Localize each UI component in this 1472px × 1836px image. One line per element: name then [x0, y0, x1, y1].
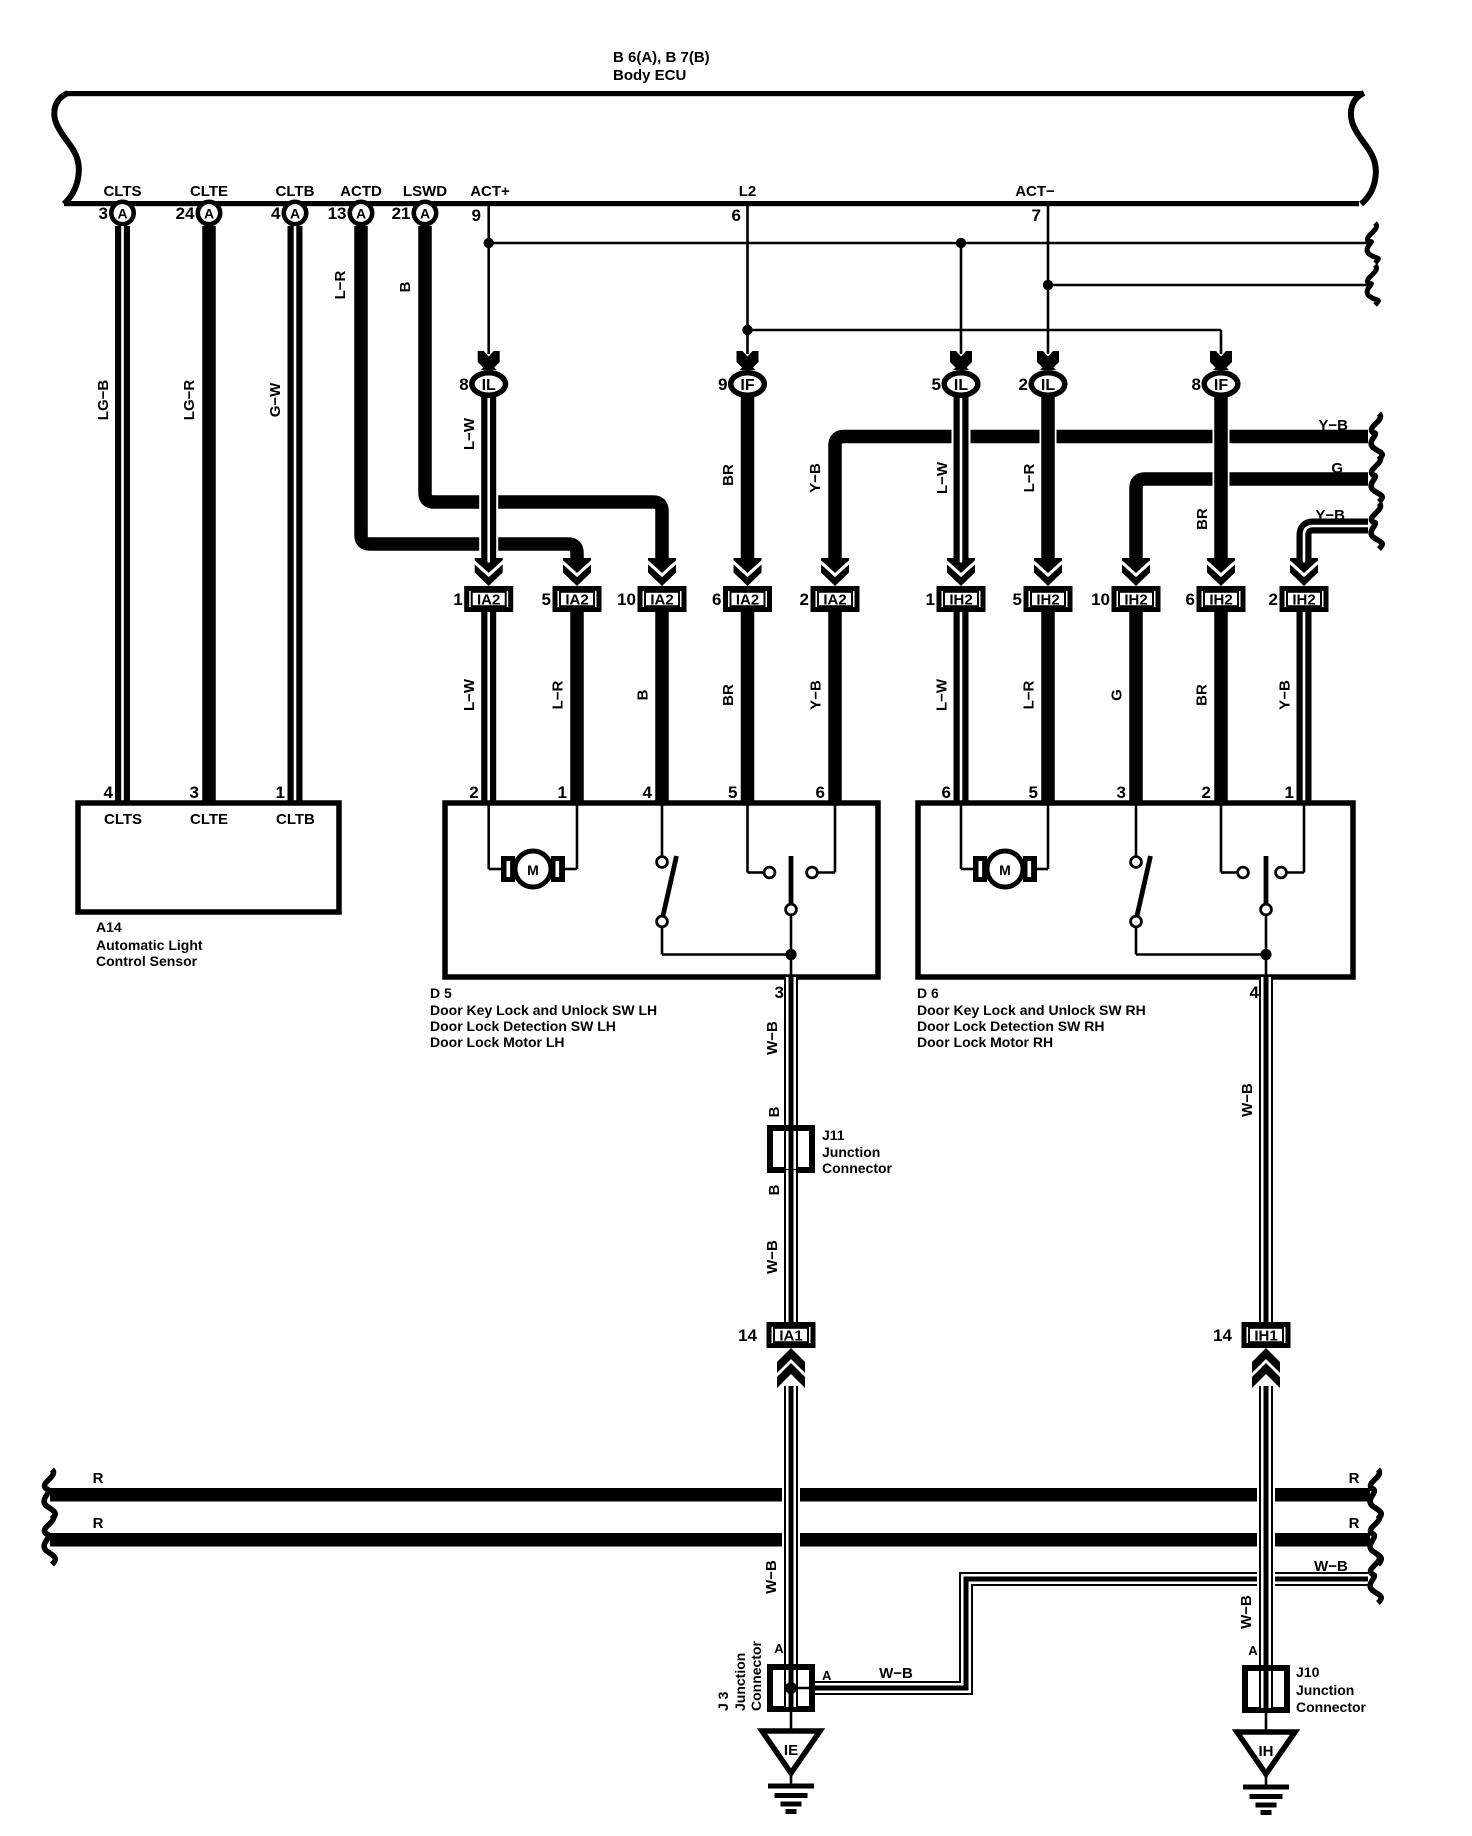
svg-text:Connector: Connector [1296, 1699, 1367, 1715]
svg-text:9: 9 [718, 375, 727, 394]
svg-text:3: 3 [775, 983, 784, 1002]
svg-text:Door Key Lock and Unlock SW LH: Door Key Lock and Unlock SW LH [430, 1002, 657, 1018]
connector IA2 pin 6 with arrow [734, 558, 762, 586]
ECU pin 3 connector A [111, 202, 133, 224]
svg-text:L−R: L−R [1021, 680, 1038, 709]
svg-text:M: M [999, 862, 1011, 878]
svg-text:Junction: Junction [1296, 1682, 1354, 1698]
connector IH2 pin 6 with arrow [1207, 558, 1235, 586]
svg-text:A: A [774, 1641, 784, 1656]
wire branch down to IF pin 8 [1220, 330, 1223, 354]
svg-text:R: R [1349, 1515, 1360, 1532]
svg-text:W−B: W−B [763, 1560, 780, 1594]
svg-text:B: B [766, 1184, 783, 1195]
svg-text:10: 10 [1091, 590, 1110, 609]
svg-text:IA2: IA2 [477, 592, 500, 609]
wire L-R from IL2 to IH2 pin5 [1040, 395, 1057, 572]
wire LG-B CLTS [113, 226, 132, 803]
ECU pin 21 connector A [414, 202, 436, 224]
wire ACT- branch horizontal to right edge [1048, 284, 1368, 287]
svg-text:BR: BR [720, 684, 737, 706]
wire branch down to IL pin 5 [960, 243, 963, 354]
connector IH1 pin 14 [1244, 1325, 1288, 1346]
svg-text:Junction: Junction [732, 1653, 748, 1711]
svg-text:CLTB: CLTB [276, 811, 315, 828]
svg-text:Door Key Lock and Unlock SW RH: Door Key Lock and Unlock SW RH [917, 1002, 1146, 1018]
svg-text:1: 1 [1285, 783, 1294, 802]
svg-text:W−B: W−B [1314, 1558, 1348, 1575]
wire W-B from J3 to right edge [814, 1579, 1368, 1688]
wire Y-B to door lock pin 1 [1297, 612, 1312, 803]
torn edge line y243 [1367, 223, 1378, 263]
svg-text:Door Lock Motor RH: Door Lock Motor RH [917, 1034, 1053, 1050]
svg-text:M: M [527, 862, 539, 878]
torn edge G [1371, 456, 1382, 502]
J10 Junction Connector [1245, 1668, 1287, 1710]
connector IH2 pin 1 with arrow [947, 558, 975, 586]
svg-text:10: 10 [617, 590, 636, 609]
connector IA2 pin 2 with arrow [821, 558, 849, 586]
wire L-W to door lock pin 6 [954, 612, 969, 803]
svg-text:21: 21 [392, 204, 411, 223]
svg-text:L−R: L−R [550, 680, 567, 709]
svg-text:6: 6 [712, 590, 721, 609]
wire Y-B (striped) from right edge to IH2 pin2 [1304, 526, 1368, 566]
svg-text:CLTS: CLTS [104, 811, 142, 828]
svg-text:Y−B: Y−B [1318, 417, 1348, 434]
svg-text:1: 1 [453, 590, 462, 609]
svg-text:J10: J10 [1296, 1664, 1320, 1680]
svg-text:L−W: L−W [461, 678, 478, 711]
svg-text:IE: IE [784, 1742, 798, 1759]
wire L2 branch horizontal to IF pin 8 [748, 329, 1222, 332]
wire L-R to door lock pin 1 [570, 612, 584, 803]
svg-text:A: A [822, 1668, 832, 1683]
svg-text:BR: BR [720, 464, 737, 486]
svg-text:IH: IH [1259, 1743, 1274, 1760]
svg-text:Junction: Junction [822, 1144, 880, 1160]
junction node to IL5 [956, 238, 966, 248]
svg-text:BR: BR [1194, 508, 1211, 530]
svg-text:5: 5 [1013, 590, 1022, 609]
ECU pin 24 connector A [198, 202, 220, 224]
wire L-W to door lock pin 2 [481, 612, 496, 803]
wire R bus upper [50, 1488, 1370, 1502]
svg-text:14: 14 [738, 1326, 757, 1345]
torn edge Y-B [1371, 414, 1382, 460]
svg-text:R: R [93, 1470, 104, 1487]
wire BR to door lock pin 2 [1214, 612, 1228, 803]
svg-text:IH2: IH2 [1209, 592, 1232, 609]
svg-text:IL: IL [954, 377, 968, 394]
svg-text:IH2: IH2 [1124, 592, 1147, 609]
svg-text:1: 1 [276, 783, 285, 802]
svg-text:2: 2 [1019, 375, 1028, 394]
svg-text:3: 3 [99, 204, 108, 223]
svg-text:Control Sensor: Control Sensor [96, 953, 198, 969]
svg-text:A: A [1248, 1643, 1258, 1658]
svg-text:Y−B: Y−B [1315, 507, 1345, 524]
svg-text:4: 4 [104, 783, 114, 802]
connector IA2 pin 10 with arrow [648, 558, 676, 586]
wire BR from IF9 to IA2 pin6 [739, 395, 756, 572]
wire L-W from IL5 to IH2 pin1 [952, 395, 971, 572]
junction node L2 [742, 325, 752, 335]
svg-text:A: A [204, 206, 214, 222]
connector oval IL pin 2 [1037, 351, 1059, 370]
svg-text:Door Lock Motor LH: Door Lock Motor LH [430, 1034, 565, 1050]
svg-text:R: R [93, 1515, 104, 1532]
svg-text:5: 5 [1029, 783, 1038, 802]
wire ACT+ branch horizontal to right edge [489, 242, 1368, 245]
svg-text:B: B [397, 281, 414, 292]
torn edge W-B right [1370, 1555, 1381, 1603]
svg-text:L−W: L−W [461, 417, 478, 450]
svg-text:B: B [635, 689, 652, 700]
wire ACT- pin 7 vertical [1047, 206, 1050, 354]
svg-text:ACT+: ACT+ [470, 183, 510, 200]
svg-text:IH2: IH2 [1292, 592, 1315, 609]
wire L-W from IL8 to IA2 pin1 [479, 395, 498, 572]
svg-text:G: G [1109, 689, 1126, 701]
svg-text:IL: IL [482, 377, 496, 394]
svg-text:Y−B: Y−B [807, 463, 824, 493]
connector IH2 pin 2 with arrow [1290, 558, 1318, 586]
connector oval IF pin 9 [737, 351, 759, 370]
torn edges R lines left [44, 1470, 55, 1520]
svg-text:Connector: Connector [748, 1640, 764, 1711]
wire R bus lower [50, 1533, 1370, 1547]
svg-text:Y−B: Y−B [1277, 680, 1294, 710]
svg-text:4: 4 [1250, 983, 1260, 1002]
ground IE [790, 1709, 793, 1731]
svg-text:4: 4 [643, 783, 653, 802]
svg-text:W−B: W−B [764, 1021, 781, 1055]
svg-text:L−R: L−R [332, 270, 349, 299]
svg-text:IA2: IA2 [565, 592, 588, 609]
svg-text:14: 14 [1213, 1326, 1232, 1345]
wire LG-R CLTE [201, 226, 218, 803]
torn edges R lines right [1370, 1470, 1381, 1520]
svg-text:BR: BR [1194, 684, 1211, 706]
D5 internals: motor M, key SW, detection SW [487, 805, 490, 869]
svg-text:G: G [1331, 460, 1343, 477]
junction node ACT+ [484, 238, 494, 248]
svg-text:IH2: IH2 [949, 592, 972, 609]
svg-text:1: 1 [558, 783, 567, 802]
svg-text:IH2: IH2 [1036, 592, 1059, 609]
svg-text:CLTS: CLTS [103, 183, 141, 200]
svg-text:IF: IF [740, 377, 754, 394]
svg-text:B 6(A), B 7(B): B 6(A), B 7(B) [613, 49, 710, 66]
svg-text:3: 3 [190, 783, 199, 802]
svg-text:L−W: L−W [934, 461, 951, 494]
svg-text:IH1: IH1 [1254, 1328, 1277, 1345]
connector oval IL pin 5 [950, 351, 972, 370]
svg-text:J11: J11 [822, 1127, 845, 1143]
svg-text:5: 5 [542, 590, 551, 609]
svg-text:A: A [290, 206, 300, 222]
svg-text:Body ECU: Body ECU [613, 67, 686, 84]
connector IA1 pin 14 [769, 1325, 813, 1346]
svg-text:6: 6 [732, 206, 741, 225]
svg-text:CLTE: CLTE [190, 183, 228, 200]
wire G to door lock pin 3 [1129, 612, 1143, 803]
torn edge Y-B lower [1371, 503, 1382, 549]
svg-text:6: 6 [942, 783, 951, 802]
wire Y-B to door lock pin 6 [828, 612, 842, 803]
wire W-B from D5 pin3 to J11 [784, 977, 798, 1128]
connector oval IL pin 8 [478, 351, 500, 370]
svg-text:ACT−: ACT− [1015, 183, 1055, 200]
junction node ACT- [1043, 280, 1053, 290]
svg-text:IF: IF [1214, 377, 1228, 394]
wire ACT+ pin 9 vertical [487, 206, 490, 354]
svg-text:LG−R: LG−R [181, 380, 198, 421]
ECU pin 4 connector A [284, 202, 306, 224]
svg-text:R: R [1349, 1470, 1360, 1487]
svg-text:CLTE: CLTE [190, 811, 228, 828]
svg-text:2: 2 [800, 590, 809, 609]
svg-text:W−B: W−B [1239, 1083, 1256, 1117]
wire W-B from D6 pin4 to IH1 [1259, 977, 1273, 1322]
svg-text:ACTD: ACTD [340, 183, 382, 200]
svg-text:D 6: D 6 [917, 985, 939, 1001]
svg-text:L−W: L−W [934, 678, 951, 711]
svg-text:2: 2 [1269, 590, 1278, 609]
connector IA2 pin 5 with arrow [563, 558, 591, 586]
svg-text:3: 3 [1117, 783, 1126, 802]
svg-text:4: 4 [271, 204, 281, 223]
wire L2 pin 6 vertical [746, 206, 749, 354]
svg-text:9: 9 [472, 206, 481, 225]
svg-text:D 5: D 5 [430, 985, 452, 1001]
svg-text:Door Lock Detection SW LH: Door Lock Detection SW LH [430, 1018, 616, 1034]
wire B to door lock pin 4 [655, 612, 669, 803]
D6 Door Key Lock and Unlock SW RH / Door Lock Detection SW RH / Door Lock Motor RH [918, 803, 1353, 977]
svg-text:W−B: W−B [879, 1665, 913, 1682]
svg-text:1: 1 [926, 590, 935, 609]
svg-text:J 3: J 3 [715, 1691, 731, 1711]
connector IA2 pin 1 with arrow [475, 558, 503, 586]
ECU pin 13 connector A [350, 202, 372, 224]
svg-text:A: A [117, 206, 127, 222]
svg-text:A: A [356, 206, 366, 222]
connector oval IF pin 8 [1210, 351, 1232, 370]
svg-text:6: 6 [816, 783, 825, 802]
svg-text:8: 8 [1192, 375, 1201, 394]
wire G-W CLTB [286, 226, 305, 803]
svg-text:A14: A14 [96, 919, 122, 935]
svg-text:2: 2 [1202, 783, 1211, 802]
svg-text:2: 2 [469, 783, 478, 802]
svg-text:Door Lock Detection SW RH: Door Lock Detection SW RH [917, 1018, 1104, 1034]
J3 Junction Connector [770, 1667, 812, 1709]
svg-text:L2: L2 [739, 183, 757, 200]
wire G horizontal from right edge to IH2 pin10 [1136, 479, 1368, 566]
svg-text:IA1: IA1 [779, 1328, 802, 1345]
svg-text:G−W: G−W [267, 382, 284, 417]
svg-text:L−R: L−R [1021, 463, 1038, 492]
D6 internals: motor M, key SW, detection SW [960, 805, 963, 869]
svg-text:CLTB: CLTB [276, 183, 315, 200]
svg-text:6: 6 [1186, 590, 1195, 609]
ECU B6/B7 Body ECU band [54, 49, 1375, 206]
wire B from LSWD routed right [425, 226, 662, 566]
svg-text:Y−B: Y−B [808, 680, 825, 710]
svg-text:B: B [766, 1106, 783, 1117]
wire L-R to door lock pin 5 [1041, 612, 1055, 803]
wire W-B from IA1 arrow down to J3 [782, 1386, 800, 1666]
svg-text:IA2: IA2 [823, 592, 846, 609]
svg-text:Connector: Connector [822, 1160, 893, 1176]
svg-text:13: 13 [328, 204, 347, 223]
svg-text:IL: IL [1041, 377, 1055, 394]
svg-text:W−B: W−B [764, 1240, 781, 1274]
wire W-B from IH1 down to J10 [1257, 1386, 1275, 1667]
connector IH2 pin 5 with arrow [1034, 558, 1062, 586]
svg-text:LSWD: LSWD [403, 183, 447, 200]
connector IH2 pin 10 with arrow [1122, 558, 1150, 586]
wire L-R from ACTD routed right [361, 226, 577, 566]
svg-text:A: A [420, 206, 430, 222]
ground IH [1265, 1710, 1268, 1732]
svg-text:5: 5 [728, 783, 737, 802]
svg-text:IA2: IA2 [736, 592, 759, 609]
svg-text:8: 8 [459, 375, 468, 394]
D5 Door Key Lock and Unlock SW LH / Door Lock Detection SW LH / Door Lock Motor LH [445, 803, 878, 977]
torn edge line y285 [1367, 265, 1378, 305]
wire BR to door lock pin 5 [741, 612, 755, 803]
svg-text:24: 24 [176, 204, 195, 223]
svg-text:W−B: W−B [1238, 1595, 1255, 1629]
J11 Junction Connector [770, 1128, 812, 1170]
svg-text:Automatic Light: Automatic Light [96, 937, 203, 953]
svg-text:5: 5 [932, 375, 941, 394]
wire BR from IF8 to IH2 pin6 [1213, 395, 1230, 572]
svg-text:LG−B: LG−B [95, 380, 112, 421]
svg-text:7: 7 [1032, 206, 1041, 225]
wire Y-B horizontal from right edge to IA2 pin2 [835, 437, 1368, 567]
A14 Automatic Light Control Sensor box [78, 803, 339, 912]
wire B / W-B from J11 to IA1 [784, 1170, 798, 1322]
svg-text:IA2: IA2 [650, 592, 673, 609]
